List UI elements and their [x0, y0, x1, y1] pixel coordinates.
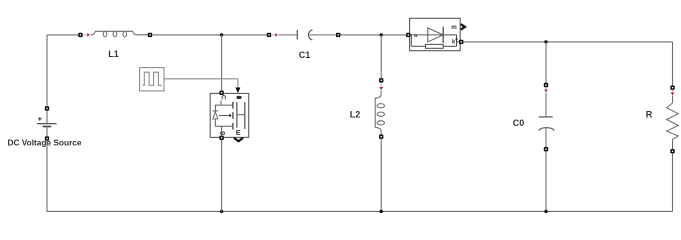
wire: bottom rail: [47, 210, 673, 212]
svg-text:L1: L1: [108, 49, 119, 59]
wire: DC source to bottom rail: [46, 141, 48, 212]
wire: C1 to diode block: [340, 34, 406, 36]
wire: L2 to bottom rail: [380, 139, 382, 212]
wire: junction down to L2 top terminal: [380, 35, 382, 79]
wire: C0 to bottom rail: [545, 151, 547, 211]
svg-text:DC Voltage Source: DC Voltage Source: [7, 138, 81, 148]
svg-text:C0: C0: [513, 118, 525, 128]
capacitor C1: [267, 30, 341, 60]
wire: L1 to C1: [152, 34, 267, 36]
wire: IGBT emitter to bottom rail: [221, 140, 223, 211]
IGBT Q1 (block): [210, 91, 249, 142]
wire: junction down to IGBT top terminal: [221, 35, 223, 91]
svg-text:R: R: [646, 109, 653, 119]
svg-text:C1: C1: [299, 50, 311, 60]
svg-text:m: m: [451, 24, 457, 31]
node: bottom rail junction IGBT: [220, 210, 223, 213]
wire: diode cathode output rail to R: [463, 41, 672, 43]
wire: top rail from corner to L1: [47, 34, 79, 36]
svg-text:g: g: [219, 131, 226, 135]
svg-text:C: C: [220, 95, 227, 100]
node: output rail junction to C0: [544, 40, 547, 43]
svg-text:E: E: [236, 130, 241, 137]
diode D1 (block with measurement port): [406, 18, 465, 50]
wire: left vertical, top rail corner down to DC source + terminal: [46, 35, 48, 107]
inductor L1: [78, 31, 152, 59]
capacitor C0: [513, 83, 554, 152]
resistor R: [646, 86, 679, 154]
svg-text:L2: L2: [350, 110, 361, 120]
wire: output rail corner down to R top terminal: [672, 42, 674, 86]
dc voltage source V1: [7, 106, 81, 147]
wire: pulse generator to IGBT gate: [164, 79, 238, 88]
wire: R to bottom rail: [672, 153, 674, 211]
node: top rail junction to IGBT collector: [220, 33, 223, 36]
node: bottom rail junction C0: [544, 210, 547, 213]
pulse generator: [140, 68, 164, 91]
wire: junction down to C0 top terminal: [545, 42, 547, 83]
inductor L2: [350, 78, 385, 139]
node: top rail junction to L2: [380, 33, 383, 36]
node: bottom rail junction L2: [380, 210, 383, 213]
